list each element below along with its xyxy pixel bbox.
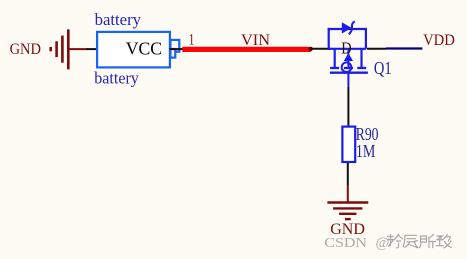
Q1 gate lead (blue, down) — [347, 73, 349, 87]
svg-text:1M: 1M — [356, 141, 376, 161]
char suo (所) — [420, 235, 436, 248]
wire to VDD (navy) — [386, 47, 422, 49]
wire: to battery box (black) — [86, 48, 96, 50]
Q1 channel contact bars — [330, 67, 366, 69]
pin 1 of battery (black stub) — [170, 48, 184, 50]
svg-text:D: D — [341, 38, 351, 57]
svg-text:1: 1 — [189, 31, 195, 48]
component battery (VCC box) — [97, 32, 170, 68]
char jin (矜) — [388, 234, 403, 248]
wire: ground symbol stub (dark red) — [68, 48, 86, 50]
char chen (辰) — [403, 235, 418, 247]
svg-text:Q1: Q1 — [374, 58, 392, 78]
junction dot at end of VIN wire — [309, 47, 313, 51]
wire VIN (thick red) — [182, 47, 309, 52]
wire: gate to resistor (black) — [347, 87, 349, 126]
svg-text:@: @ — [376, 235, 390, 251]
Q1 source-side channel lead (right) — [360, 49, 362, 68]
svg-text:battery: battery — [94, 68, 139, 87]
wire: resistor to ground (black) — [347, 163, 349, 185]
svg-text:CSDN: CSDN — [324, 236, 367, 251]
pin pad box of battery pin 1 — [170, 40, 179, 52]
resistor R90 — [342, 127, 355, 162]
char zhi (致) — [436, 234, 451, 248]
Q1 bulk lead with arrow — [344, 49, 353, 67]
power port GND stem (dark red) — [347, 185, 349, 202]
ground bar symbol (left, battery-style bars) — [51, 29, 69, 69]
pin D of Q1 (black) — [311, 48, 331, 50]
svg-text:battery: battery — [95, 10, 142, 29]
watermark CJK characters (approximated strokes) — [388, 234, 452, 248]
pin S of Q1 (black) — [367, 48, 386, 50]
Q1 body-diode loop — [328, 28, 367, 50]
svg-text:VCC: VCC — [126, 39, 162, 59]
svg-text:VDD: VDD — [423, 32, 455, 49]
ground symbol (bottom, 4 bars) — [327, 203, 368, 220]
Q1 bulk circle — [342, 62, 352, 72]
pin pad box of battery pin 2 (small, below) — [170, 49, 175, 58]
svg-text:GND: GND — [10, 41, 41, 58]
internal blue segment of Q1 at rail — [330, 48, 366, 50]
svg-text:VIN: VIN — [241, 32, 270, 49]
Q1 gate bar — [330, 72, 368, 74]
Q1 drain-side channel lead (left) — [334, 49, 336, 68]
Q1 body-diode triangle and cathode — [342, 21, 355, 34]
